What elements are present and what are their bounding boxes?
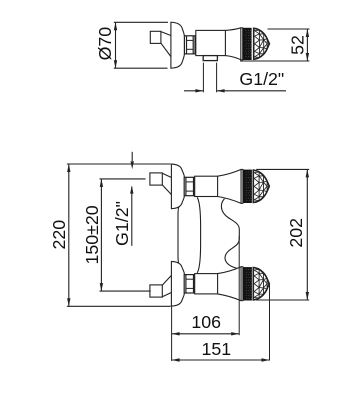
handle flare cone (top view) [225, 28, 241, 60]
knurled ring top (front view) [243, 170, 252, 203]
central body tube [178, 197, 201, 273]
G1/2 leader arrow (front view) [130, 186, 133, 246]
dim 150±20 dimension line with arrows [100, 179, 103, 291]
hex nut (top view) [184, 36, 195, 54]
dim Ø70 dimension line with arrows [114, 22, 117, 68]
dim G1/2 label (top view) [239, 69, 284, 89]
dim 151 dimension line with arrows [172, 358, 270, 361]
handle flare top (front view) [218, 169, 242, 203]
wall union square bottom (front view) [150, 285, 162, 297]
knurled ring bottom (front view) [243, 267, 252, 300]
dim 52 extension line top [268, 28, 310, 30]
crystal handle top (front view) [253, 170, 269, 202]
wall union square top (front view) [150, 173, 162, 185]
svg-text:151: 151 [201, 339, 231, 359]
crystal handle dome (top view) [254, 28, 270, 59]
dim G1/2 label (front view) [112, 201, 132, 246]
dim 202 label [286, 218, 306, 248]
svg-text:220: 220 [49, 220, 69, 250]
svg-text:G1/2": G1/2" [112, 201, 132, 246]
dim G1/2 extension line left [202, 63, 204, 93]
svg-text:52: 52 [287, 35, 307, 55]
dim 150±20 label [82, 205, 102, 264]
dim 106 label [191, 312, 221, 332]
dim 52 label [287, 35, 307, 55]
svg-text:106: 106 [191, 312, 221, 332]
dim 106-151 extension line left [171, 307, 173, 361]
dim 150±20 extension line bottom [100, 290, 151, 292]
dim 220 extension line bottom [67, 305, 171, 307]
wall union square (top view) [150, 31, 161, 43]
top reference leader with down arrow [131, 152, 134, 169]
crystal handle bottom (front view) [253, 268, 269, 300]
eccentric cone bottom (front view) [162, 275, 171, 296]
dim Ø70 extension line bottom [114, 67, 168, 69]
white ring (top view) [241, 28, 243, 60]
hex nut top (front view) [184, 177, 195, 195]
knurled ring (top view) [243, 28, 252, 60]
dim 52 extension line bottom [240, 60, 310, 62]
dim 202 extension line bottom [256, 299, 309, 301]
dim 151 extension line right [269, 284, 271, 361]
body web S-curve [221, 199, 239, 269]
dim 150±20 extension line top [100, 178, 146, 180]
eccentric cone (top view) [161, 32, 171, 57]
dim Ø70 label [95, 27, 115, 61]
dim 151 label [201, 339, 231, 359]
svg-text:202: 202 [286, 218, 306, 248]
dim G1/2 extension line right [216, 63, 218, 93]
dim 106 extension line right [238, 236, 240, 335]
dim Ø70 extension line top [114, 21, 168, 23]
svg-text:150±20: 150±20 [82, 205, 102, 264]
dim 220 dimension line with arrows [67, 164, 70, 306]
bell escutcheon top (front view) [171, 164, 184, 209]
dim 106 dimension line with arrows [172, 332, 240, 335]
eccentric cone top (front view) [162, 173, 171, 194]
handle flare bottom (front view) [218, 267, 242, 301]
valve body top (front view) [195, 176, 218, 196]
bell escutcheon (top view) [171, 22, 185, 68]
dim G1/2 dimension line left with arrow [184, 89, 203, 92]
bell escutcheon bottom (front view) [171, 261, 184, 306]
hex nut bottom (front view) [184, 275, 195, 293]
dim 220 label [49, 220, 69, 250]
white ring top (front view) [241, 169, 243, 203]
outlet stub G1/2 (top view) [203, 56, 217, 61]
dim 202 dimension line with arrows [306, 169, 309, 300]
valve body cylinder (top view) [196, 30, 226, 55]
valve body bottom (front view) [195, 274, 218, 294]
dim 52 dimension line with arrows [306, 29, 309, 61]
white ring bottom (front view) [241, 267, 243, 301]
dim 202 extension line top [256, 168, 309, 170]
dim 220 extension line top [67, 163, 171, 165]
svg-text:G1/2": G1/2" [239, 69, 284, 89]
svg-text:Ø70: Ø70 [95, 27, 115, 61]
dim G1/2 dimension line right with arrow [217, 89, 286, 92]
